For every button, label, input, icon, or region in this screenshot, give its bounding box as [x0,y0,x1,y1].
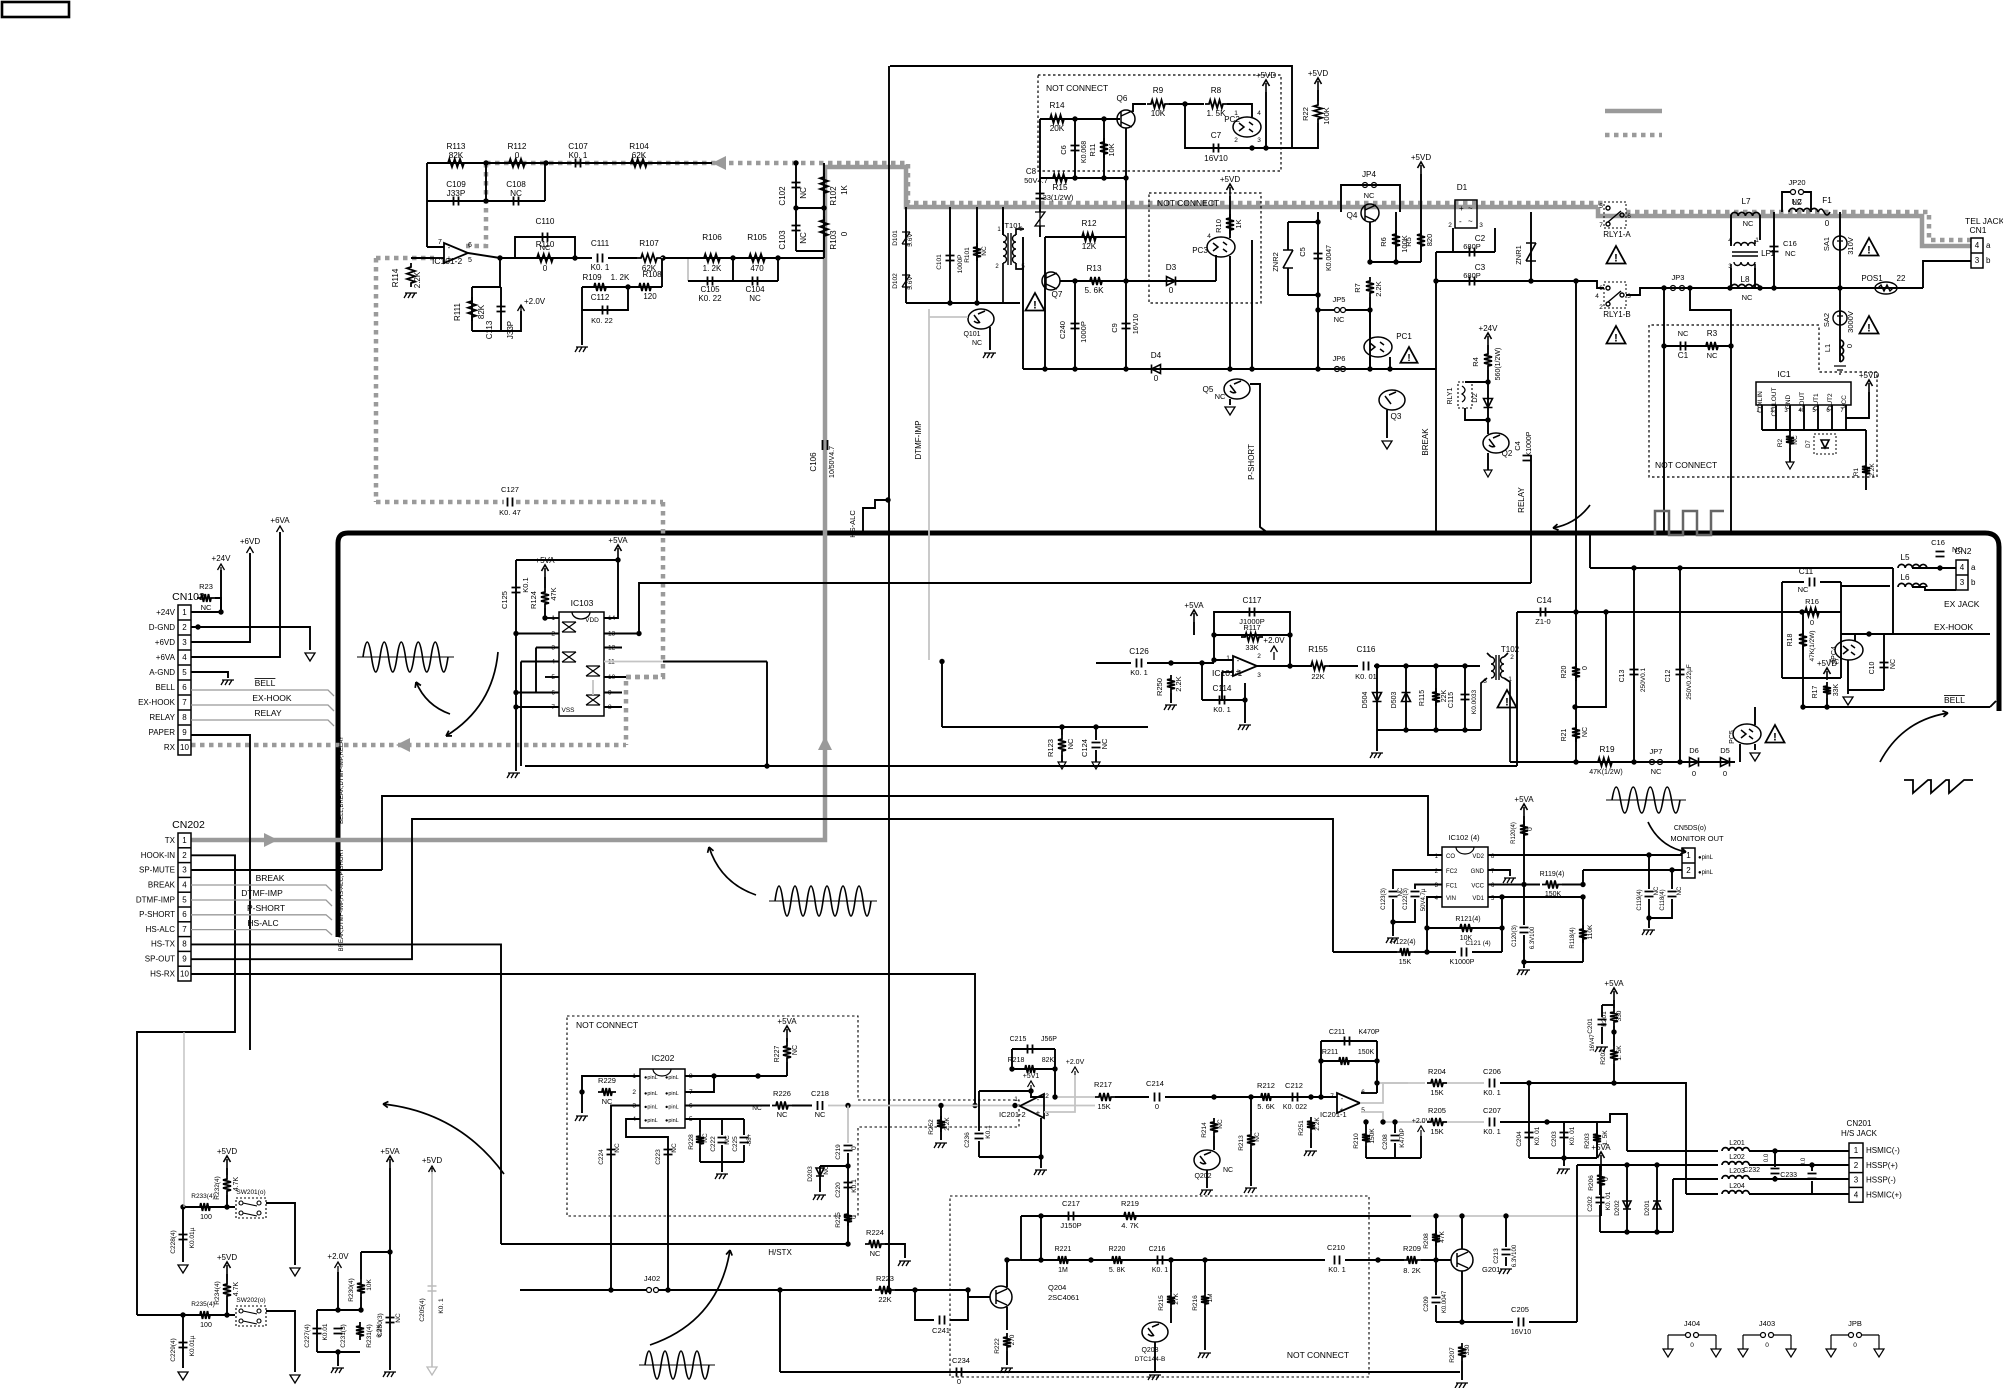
node h11 [1052,1066,1057,1071]
svg-text:7: 7 [438,239,442,246]
C124 arrow [1092,762,1100,769]
svg-text:-: - [448,243,451,252]
svg-text:●pinL: ●pinL [1698,855,1714,861]
svg-text:1: 1 [182,608,187,617]
svg-text:J402: J402 [644,1274,660,1283]
dashed feedback horizontal C127 [376,500,504,505]
svg-text:+5VD: +5VD [217,1147,237,1156]
svg-text:NC: NC [1223,1167,1233,1174]
title box [2,2,69,17]
IC201-1 out gray [1360,1083,1408,1103]
capacitor C213 [1502,1250,1511,1255]
svg-text:C14: C14 [1536,596,1551,605]
resistor R119 [1542,881,1562,889]
svg-text:C204: C204 [1516,1131,1523,1147]
svg-text:K1000P: K1000P [1450,959,1475,966]
annotation arrow tx-gray [709,847,756,895]
svg-text:16V10: 16V10 [1133,314,1140,334]
svg-text:Q2: Q2 [1502,449,1513,458]
R232 wires [226,1168,228,1175]
D203 link [820,1165,848,1167]
svg-text:C216: C216 [1149,1246,1166,1253]
D203 gnd [819,1178,821,1192]
node b13 [1123,366,1128,371]
node d20 [1677,565,1682,570]
wire y766 long [525,765,1517,767]
R122 row [1333,951,1397,953]
svg-text:+2.0V: +2.0V [1066,1059,1085,1066]
C13 v [1633,568,1635,762]
svg-text:C214: C214 [1146,1079,1164,1088]
capacitor C208 [1391,1136,1400,1141]
node d16 [1572,704,1577,709]
op-amp IC101-2 [444,243,468,263]
transistor Q204 [990,1286,1012,1308]
svg-text:15K: 15K [1430,1088,1443,1097]
node i32 [1654,1162,1659,1167]
diode D7 [1821,440,1829,448]
c206 right [1500,1082,1614,1084]
power +5VA r206 [1598,1152,1605,1164]
HOOK-IN gray drop [183,1032,185,1207]
svg-text:5: 5 [182,668,187,677]
plus net [1221,672,1223,700]
svg-text:Q3: Q3 [1391,412,1402,421]
R23 link [215,598,221,612]
TX gray arrow up [818,736,832,750]
R124 bottom [544,608,546,618]
C105 vert mid [732,258,734,281]
svg-text:82K: 82K [477,304,486,319]
svg-text:K0.0047: K0.0047 [1326,245,1333,271]
svg-text:K0.068: K0.068 [1081,141,1088,163]
node j3 [1646,852,1651,857]
svg-text:R210: R210 [1353,1133,1360,1149]
svg-text:R217: R217 [1094,1080,1112,1089]
node j7 [1580,894,1585,899]
svg-text:5: 5 [182,895,187,904]
node a7 [775,255,780,260]
node i5 [1318,1094,1323,1099]
loop top [1782,581,1804,583]
resistor R251 [1307,1117,1315,1133]
svg-text:BREAK,DTMF-IMP,HS-ALC,P-SHORT: BREAK,DTMF-IMP,HS-ALC,P-SHORT [339,848,345,951]
photocoupler PC4 [1835,640,1863,660]
svg-text:R224: R224 [866,1228,884,1237]
svg-text:C16: C16 [1931,538,1945,547]
C208 bot [1394,1143,1396,1158]
node d5 [1287,663,1292,668]
resistor R117 [1241,633,1263,641]
R250 bot [1170,693,1172,703]
+2v drop i [1420,1136,1422,1158]
R10 v [1229,196,1231,238]
node b14 [1227,366,1232,371]
SW201 row [183,1206,235,1208]
R5 v [1420,174,1422,262]
capacitor C127 [508,498,513,507]
capacitor C206 [1490,1079,1495,1088]
svg-text:6: 6 [1627,213,1631,220]
node d8 [1374,663,1379,668]
svg-text:0: 0 [1603,1177,1610,1181]
node c5 [1315,292,1320,297]
R111 block wires [499,258,501,287]
cluster gnd v [721,1162,723,1172]
svg-text:Z1-0: Z1-0 [1535,617,1550,626]
svg-text:+: + [1459,204,1464,213]
svg-text:R120(4): R120(4) [1511,822,1517,844]
svg-text:R234(4): R234(4) [214,1281,221,1304]
svg-text:100K: 100K [1400,235,1409,253]
ground C213 [1499,1269,1512,1274]
ground cluster [715,1174,728,1179]
svg-text:C224: C224 [598,1149,605,1165]
connector CN102 [178,605,191,755]
resistor R14 [1046,115,1068,123]
pin14 wire [604,560,618,618]
bottom row 1158 [1529,1157,1597,1159]
resistor R4 [1484,350,1492,370]
ground R251 [1304,1151,1317,1156]
node c3 [1367,366,1372,371]
pin13 riser and long wire y583 [639,583,1531,634]
svg-text:3: 3 [1257,672,1261,679]
resistor R114 [407,263,415,287]
capacitor C115 [1461,695,1470,700]
+2.0V arrow g [335,1262,342,1272]
R201 wires [1613,1000,1615,1008]
capacitor C10 [1880,663,1889,668]
C209 wires [1435,1260,1437,1295]
pin6 wire [516,692,559,694]
R115 v [1435,666,1437,730]
pin3 v [535,648,537,693]
svg-text:R250: R250 [1155,678,1164,696]
node hsalc [885,497,890,502]
node i30 [1809,1162,1814,1167]
svg-text:R109: R109 [582,273,602,282]
svg-text:NC: NC [201,603,212,612]
Q101 gnd stub [989,327,991,350]
IC1 pin wire 2 [1775,405,1777,430]
IC102 pin7 wire [1488,870,1510,876]
ground R252 [934,1143,947,1148]
transistor Q2 [1483,433,1509,453]
svg-text:2.2K: 2.2K [1174,676,1183,691]
svg-text:-: - [1459,217,1462,226]
svg-text:NC: NC [752,1105,762,1112]
r155 to c116 [1329,665,1358,667]
svg-text:PAPER: PAPER [148,728,175,737]
node e1 [615,557,620,562]
svg-text:C108: C108 [506,180,526,189]
node h2 [711,1073,716,1078]
svg-text:Q6: Q6 [1117,94,1128,103]
node j5 [1580,882,1585,887]
resistor R202b [1610,1046,1618,1064]
resistor R235 [196,1311,214,1319]
ground C112 [575,347,588,352]
resistor R155 [1307,662,1329,670]
lg pin11 [604,661,663,663]
svg-text:NC: NC [1364,191,1375,200]
JP5 row [1318,309,1334,311]
svg-text:D504: D504 [1362,692,1369,709]
R216 bot [1204,1308,1206,1350]
resistor R120 [1520,821,1528,839]
RX gray arrow left [712,156,726,170]
resistor R124 [541,588,549,608]
node a9 [793,160,798,165]
C232 b [1774,1176,1776,1179]
R12 left v [1044,237,1046,281]
svg-text:270: 270 [1009,1334,1016,1345]
svg-text:!: ! [1867,245,1871,257]
row 568 long [1590,567,1893,569]
resistor R103 [820,216,828,240]
svg-text:FC2: FC2 [1446,869,1458,875]
C118 v [1671,870,1673,889]
capacitor C110 [543,233,548,242]
jumper J403 [1743,1333,1791,1350]
ground right J403 [1786,1349,1796,1357]
C234 row [780,1371,1460,1373]
svg-text:4: 4 [1595,293,1599,300]
resistor R252 [937,1116,945,1132]
board outline [338,533,1999,937]
svg-text:33K: 33K [1833,683,1840,696]
node j2 [974,300,979,305]
svg-text:R111: R111 [453,302,462,320]
svg-text:NC: NC [1100,738,1109,749]
capacitor C236 [975,1134,984,1139]
svg-text:K0.01µ: K0.01µ [189,1335,196,1356]
R111 left v [471,287,473,331]
pin8 stub [604,706,622,708]
svg-text:C201: C201 [1587,1018,1594,1034]
svg-text:2: 2 [182,851,187,860]
node c15 [1727,285,1732,290]
HS-RX wire [191,974,975,1106]
r119 right [1562,884,1583,886]
dashed feedback left vertical [374,258,379,502]
resistor R250 [1167,675,1175,693]
IC1 pin wire 6 [1831,405,1833,430]
R20 loop right [1575,612,1606,707]
C208 top [1394,1122,1396,1133]
SP-MUTE riser y796 [382,796,1442,870]
svg-text:Q5: Q5 [1203,385,1214,394]
svg-text:C102: C102 [778,186,787,206]
node g11 [665,1287,670,1292]
svg-text:NC: NC [777,1110,788,1119]
L8 right stub [1754,268,1756,288]
capacitor C107 [576,159,581,168]
zener ZD C8 [1035,198,1045,226]
svg-text:4: 4 [1207,233,1211,240]
x1893 v [1892,568,1894,634]
svg-text:R115: R115 [1419,690,1426,706]
svg-text:VIN: VIN [1446,896,1456,902]
transistor Q4 [1361,204,1379,222]
svg-text:FC1: FC1 [1446,884,1458,890]
svg-text:L2: L2 [1792,198,1802,207]
svg-text:D1: D1 [1457,183,1468,192]
pin10 stub [604,676,626,678]
R210 bot [1365,1146,1367,1158]
R228 top [699,1119,701,1132]
node e2 [542,615,547,620]
svg-text:CN202: CN202 [172,819,205,831]
HS-ALC branch [863,500,888,533]
+2.0V arrow i [1418,1126,1425,1136]
resistor R232 [223,1175,231,1195]
svg-text:R215: R215 [1158,1295,1165,1311]
pin4 col [626,1119,668,1290]
svg-text:R11: R11 [1088,143,1097,156]
c123 gnd [1392,922,1394,936]
y612 into loop [1782,611,1841,613]
svg-text:82K: 82K [449,151,464,160]
col x824 [823,163,825,258]
node b2 [1101,116,1106,121]
svg-text:H/S JACK: H/S JACK [1841,1129,1878,1138]
svg-text:HS-TX: HS-TX [151,940,176,949]
svg-text:22: 22 [1897,274,1906,283]
svg-text:10: 10 [180,743,189,752]
svg-text:EX JACK: EX JACK [1944,599,1980,609]
R114 wire [411,257,434,259]
capacitor C215 [1028,1045,1033,1054]
node d25 [1866,631,1871,636]
power +5V1 [1028,1081,1035,1091]
svg-text:RLY1-A: RLY1-A [1603,230,1631,239]
node a4 [572,255,577,260]
jumper JP7 [1650,760,1663,765]
C222 top [721,1119,723,1135]
svg-text:C212: C212 [1285,1081,1303,1090]
svg-text:0: 0 [543,264,548,273]
ZNR2 top [1288,221,1318,223]
svg-text:1. 2K: 1. 2K [703,264,722,273]
svg-text:+5VA: +5VA [608,536,628,545]
CN102 pin5 wire [191,672,228,678]
R251 gnd [1310,1133,1312,1148]
r204 to c206 [1447,1082,1484,1084]
svg-text:L8: L8 [1740,275,1750,284]
node h17 [1038,1154,1043,1159]
node h16 [1052,1094,1057,1099]
node i36 [1654,1229,1659,1234]
resistor R5 [1417,230,1425,250]
BELL row [1803,706,1990,708]
svg-text:EX-HOOK: EX-HOOK [1934,622,1974,632]
C7 row [1185,104,1292,148]
resistor R216 [1201,1292,1209,1308]
resistor R219 [1120,1212,1140,1220]
node i18 [1459,1213,1464,1218]
resistor R22 [1314,101,1322,123]
node d18 [1677,759,1682,764]
node d21 [1937,565,1942,570]
annotation arrow ic103 [416,682,450,714]
svg-text:+6VA: +6VA [156,653,176,662]
svg-text:7: 7 [1599,222,1603,229]
svg-text:+24V: +24V [212,554,232,563]
loop left v [978,1091,980,1131]
svg-text:K0.01µ: K0.01µ [189,1227,196,1248]
inductor L5 [1898,564,1927,568]
ground R216 [1198,1353,1211,1358]
resistor R15 [1049,174,1071,182]
svg-text:C225: C225 [732,1136,739,1152]
capacitor C11 [1810,578,1815,587]
svg-text:HSSP(-): HSSP(-) [1866,1176,1896,1185]
C3 row [1436,280,1576,282]
capacitor C9 [1122,324,1131,329]
svg-text:R227: R227 [774,1046,781,1063]
svg-text:NC: NC [981,246,988,256]
svg-text:J56P: J56P [1041,1036,1057,1043]
svg-text:NC: NC [510,189,522,198]
svg-text:150K: 150K [1369,1128,1376,1144]
svg-text:4: 4 [182,880,187,889]
RLY1 top wire [1465,381,1488,383]
svg-text:SP-MUTE: SP-MUTE [139,866,175,875]
svg-text:C109: C109 [446,180,466,189]
svg-text:C112: C112 [591,293,610,302]
svg-text:7: 7 [1330,1093,1334,1100]
capacitor C220 [844,1183,853,1188]
svg-text:R13: R13 [1086,264,1101,273]
svg-text:1M: 1M [1058,1267,1068,1274]
pin1 wire [545,617,559,619]
svg-text:62K: 62K [632,151,647,160]
light gray DTMF-IMP vertical [928,309,930,660]
SW201 right [266,1203,295,1265]
node i1 [1211,1094,1216,1099]
gnd 1158 [1563,1158,1565,1166]
svg-text:VSS: VSS [561,707,575,714]
C125 v [515,560,517,707]
svg-text:BELL: BELL [155,683,175,692]
node d17 [1631,759,1636,764]
C121 right [1472,951,1502,953]
node d6 [1199,660,1204,665]
node h15 [1028,1088,1033,1093]
svg-text:C115: C115 [1448,692,1455,708]
x1590 riser [1589,533,1591,568]
node c2 [1393,259,1398,264]
capacitor C227 [313,1329,322,1334]
svg-text:R7: R7 [1353,283,1362,293]
power +6VD [247,547,254,553]
r226 to c218 [792,1105,812,1107]
power +5VD c205 [429,1166,436,1174]
node i25 [1433,1257,1438,1262]
svg-text:+5VD: +5VD [422,1156,442,1165]
svg-text:R112: R112 [508,142,527,151]
svg-text:P-SHORT: P-SHORT [247,903,285,913]
svg-text:Q204: Q204 [1048,1283,1066,1292]
transistor Q3 [1379,390,1405,410]
resistor R212 [1257,1093,1275,1101]
svg-text:C7: C7 [1211,131,1222,140]
svg-text:NC: NC [1890,659,1897,669]
IC103 gate 1 [562,622,576,632]
Q204 collector [1006,1260,1008,1287]
